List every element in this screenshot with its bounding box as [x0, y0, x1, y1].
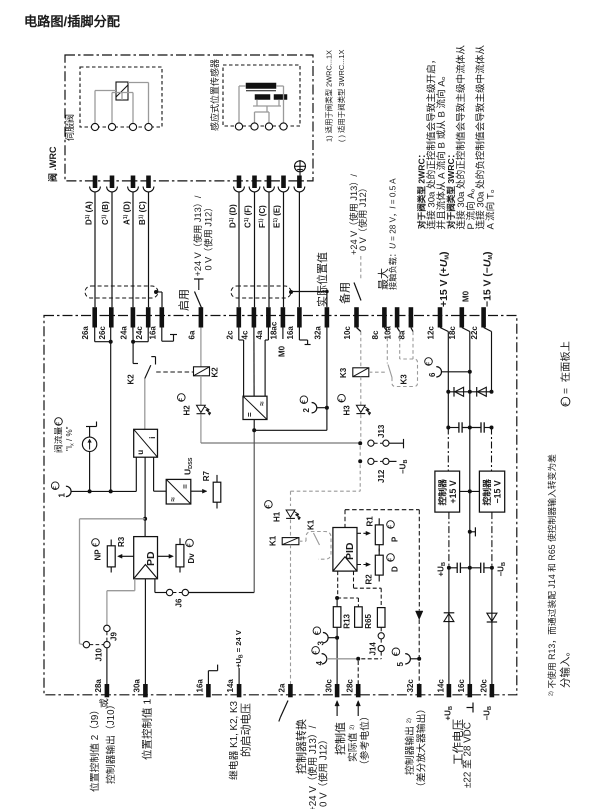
svg-text:0 V（使用 J12）: 0 V（使用 J12） [202, 203, 213, 271]
svg-text:= 在面板上: = 在面板上 [559, 341, 572, 394]
svg-text:H1: H1 [272, 511, 281, 522]
svg-text:D1) (A): D1) (A) [84, 201, 93, 225]
svg-text:14c: 14c [436, 679, 445, 693]
svg-text:0 V（使用 J12）: 0 V（使用 J12） [357, 183, 368, 251]
svg-text:R1: R1 [365, 516, 374, 527]
svg-text:实际值 2): 实际值 2) [346, 725, 359, 762]
svg-text:8c: 8c [371, 330, 380, 339]
svg-text:2: 2 [302, 408, 311, 413]
svg-text:−15 V: −15 V [492, 480, 502, 503]
svg-text:实际位置值: 实际位置值 [315, 252, 329, 307]
svg-text:6: 6 [428, 372, 437, 377]
svg-text:K1: K1 [268, 535, 277, 546]
svg-text:( ) 适用于阀类型 3WRC...1X: ( ) 适用于阀类型 3WRC...1X [337, 50, 346, 142]
svg-text:≈: ≈ [169, 497, 178, 502]
svg-text:控制器: 控制器 [481, 479, 492, 506]
svg-text:（参考电位）: （参考电位） [358, 711, 371, 770]
svg-text:D1) (D): D1) (D) [228, 204, 237, 228]
svg-text:0 V（使用 J12）: 0 V（使用 J12） [317, 735, 330, 807]
svg-text:−15 V (−UM): −15 V (−UM) [483, 252, 495, 307]
svg-text:控制器: 控制器 [436, 479, 447, 506]
svg-text:R3: R3 [117, 536, 126, 547]
svg-text:PD: PD [145, 551, 157, 566]
svg-text:的启动电压: 的启动电压 [238, 703, 252, 757]
svg-text:±22 至 28 VDC: ±22 至 28 VDC [462, 722, 474, 788]
svg-text:对于阀类型 3WRC：: 对于阀类型 3WRC： [445, 150, 456, 229]
svg-text:22c: 22c [470, 326, 479, 340]
svg-text:K2: K2 [126, 374, 135, 385]
svg-text:2c: 2c [225, 330, 234, 339]
svg-text:F1) (C): F1) (C) [258, 205, 267, 228]
svg-text:K2: K2 [210, 367, 219, 378]
svg-text:H2: H2 [183, 405, 192, 416]
svg-text:M0: M0 [461, 290, 470, 302]
svg-text:R2: R2 [364, 574, 373, 585]
svg-text:4: 4 [315, 661, 324, 666]
svg-text:12c: 12c [426, 326, 435, 340]
svg-text:对于阀类型 2WRC：: 对于阀类型 2WRC： [415, 150, 426, 229]
svg-text:控制器输出（J10）: 控制器输出（J10） [104, 700, 117, 784]
svg-text:K3: K3 [399, 374, 408, 385]
svg-text:E1) (E): E1) (E) [272, 205, 281, 228]
svg-text:J10: J10 [94, 648, 103, 662]
svg-text:分输入。: 分输入。 [558, 646, 571, 688]
svg-text:J9: J9 [109, 632, 118, 641]
svg-text:4c: 4c [240, 330, 249, 339]
svg-text:P: P [390, 536, 399, 542]
svg-text:位置控制值 2（J9）: 位置控制值 2（J9） [88, 705, 101, 792]
svg-text:i: i [148, 437, 157, 439]
svg-text:16a: 16a [195, 679, 204, 693]
svg-text:+UB = 24 V: +UB = 24 V [234, 629, 244, 668]
svg-text:控制器输出 2): 控制器输出 2) [403, 718, 416, 775]
svg-text:24c: 24c [135, 326, 144, 340]
svg-text:1: 1 [58, 493, 67, 498]
svg-text:K1: K1 [306, 519, 315, 530]
svg-text:4a: 4a [255, 330, 264, 339]
svg-text:接触负载：U = 28 V，I = 0.5 A: 接触负载：U = 28 V，I = 0.5 A [387, 178, 397, 290]
svg-text:备用: 备用 [337, 282, 351, 304]
svg-text:J14: J14 [368, 642, 377, 656]
svg-text:28a: 28a [94, 679, 103, 693]
svg-text:2a: 2a [277, 683, 286, 692]
svg-text:D: D [390, 566, 399, 572]
svg-text:1) 适用于阀类型 2WRC...1X: 1) 适用于阀类型 2WRC...1X [325, 50, 334, 142]
svg-text:=: = [181, 484, 190, 489]
svg-text:阀 .WRC: 阀 .WRC [47, 146, 58, 182]
svg-text:=: = [245, 412, 254, 417]
svg-text:启用: 启用 [177, 289, 190, 311]
svg-text:16c: 16c [457, 679, 466, 693]
svg-text:"Ix / %": "Ix / %" [65, 426, 76, 451]
svg-text:感应式位置传感器: 感应式位置传感器 [209, 59, 220, 131]
svg-text:位置控制值 1: 位置控制值 1 [141, 699, 154, 760]
svg-text:R13: R13 [343, 613, 352, 628]
svg-text:伺服阀: 伺服阀 [64, 114, 75, 141]
svg-text:J12: J12 [377, 469, 386, 483]
svg-text:14a: 14a [226, 679, 235, 693]
svg-text:（差分放大器输出）: （差分放大器输出） [415, 704, 428, 792]
svg-text:C1) (F): C1) (F) [243, 205, 252, 228]
svg-text:Dv: Dv [187, 553, 196, 564]
svg-text:H3: H3 [343, 405, 352, 416]
svg-text:10a: 10a [383, 326, 392, 340]
svg-text:6a: 6a [187, 330, 196, 339]
svg-text:≈: ≈ [257, 401, 266, 406]
svg-text:32c: 32c [406, 679, 415, 693]
svg-text:26a: 26a [81, 326, 90, 340]
svg-text:J6: J6 [174, 598, 183, 607]
svg-text:18ac: 18ac [269, 321, 278, 339]
svg-text:8a: 8a [397, 330, 406, 339]
svg-text:控制器转换: 控制器转换 [294, 719, 308, 774]
svg-text:+24 V（使用 J13）/: +24 V（使用 J13）/ [306, 725, 319, 809]
svg-text:R7: R7 [202, 471, 211, 482]
svg-text:30c: 30c [324, 679, 333, 693]
svg-text:K3: K3 [339, 367, 348, 378]
svg-text:控制值: 控制值 [333, 722, 347, 755]
svg-text:5: 5 [396, 662, 405, 667]
svg-text:C1) (B): C1) (B) [101, 201, 110, 225]
svg-text:32a: 32a [313, 326, 322, 340]
svg-text:26c: 26c [98, 326, 107, 340]
svg-text:B1) (C): B1) (C) [138, 201, 147, 225]
svg-text:10c: 10c [343, 326, 352, 340]
svg-text:16a: 16a [148, 326, 157, 340]
svg-text:J13: J13 [377, 424, 386, 438]
svg-text:A 流向 T。: A 流向 T。 [484, 184, 496, 230]
svg-text:R65: R65 [364, 613, 373, 628]
svg-text:A1) (D): A1) (D) [122, 201, 131, 225]
svg-text:NP: NP [93, 549, 102, 561]
svg-text:+24 V（使用 J13）/: +24 V（使用 J13）/ [192, 195, 203, 276]
svg-text:24a: 24a [119, 326, 128, 340]
svg-text:+15 V: +15 V [448, 480, 458, 503]
svg-text:20c: 20c [479, 679, 488, 693]
svg-text:M0: M0 [278, 345, 287, 357]
svg-text:30a: 30a [132, 679, 141, 693]
svg-text:u: u [136, 450, 145, 455]
svg-text:电路图/插脚分配: 电路图/插脚分配 [24, 13, 121, 29]
svg-text:2) 不使用 R13，而通过装配 J14 和 R65 使控制: 2) 不使用 R13，而通过装配 J14 和 R65 使控制器输入转变为差 [546, 454, 557, 696]
svg-text:继电器 K1, K2, K3: 继电器 K1, K2, K3 [227, 700, 240, 780]
svg-text:18c: 18c [448, 326, 457, 340]
svg-text:阀流量: 阀流量 [53, 426, 64, 453]
svg-text:+15 V (+UM): +15 V (+UM) [439, 252, 451, 307]
svg-text:28c: 28c [345, 679, 354, 693]
svg-text:16a: 16a [286, 326, 295, 340]
